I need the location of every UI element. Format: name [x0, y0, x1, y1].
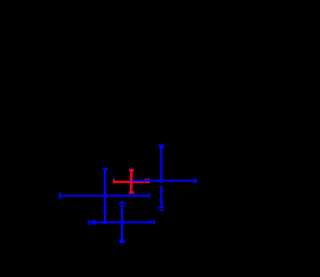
wire V2 (vertical, x=104.9) — [104, 170, 106, 223]
capacitor C1 plate 1 — [119, 203, 126, 204]
capacitor C1 top lead stub — [121, 201, 123, 203]
selected component : handle near right end 2 — [148, 178, 150, 183]
capacitor C2 top lead — [160, 186, 162, 208]
wire H2 (horizontal, y=195.7) — [60, 195, 150, 197]
wire H3 right end cap — [154, 220, 156, 224]
wire endpoint square S2 on H3 — [149, 220, 151, 223]
pin square P1 (top terminal of vertical wire V1) — [159, 144, 164, 148]
selected component : horizontal red line — [113, 181, 150, 183]
pin square P2 (right end of H1) — [194, 179, 197, 183]
wire endpoint square S1 on H3 — [92, 220, 95, 225]
wire V3 (vertical, x=122, from C1 down to bottom pad) — [121, 206, 123, 239]
selected component : handle near right end 1 — [145, 178, 147, 183]
node N1 (junction of V1 and H1) — [159, 178, 164, 183]
capacitor C2 plate 2 — [159, 210, 165, 212]
selected component : vertical red line — [130, 169, 133, 193]
node N3 (junction of V3 and H3) — [120, 220, 125, 225]
selected component : left handle — [113, 179, 115, 184]
wire V1 (vertical, x=161.4, from P1 down to node N1) — [160, 148, 162, 182]
wire H2 left end cap — [59, 193, 61, 199]
selected component : centre handle — [130, 179, 133, 184]
wire H1 (horizontal, y=180.6, from red cross to right pin) — [132, 180, 194, 182]
wire H2 right end cap — [148, 193, 150, 198]
capacitor C1 plate 2 — [119, 205, 126, 206]
wire V2 top end cap — [103, 168, 108, 170]
junction square (V2 meets H3) — [103, 221, 108, 224]
capacitor C2 plate 1 — [159, 207, 164, 209]
wire H3 (horizontal, y=222.4) — [89, 221, 155, 223]
wire H3 left end cap — [88, 219, 90, 225]
node N2 (junction of V2 and H2) — [103, 193, 108, 198]
selected component (red cross) : top handle — [129, 169, 134, 172]
selected component : bottom handle — [129, 191, 134, 194]
pad square at bottom of V3 — [119, 239, 125, 243]
